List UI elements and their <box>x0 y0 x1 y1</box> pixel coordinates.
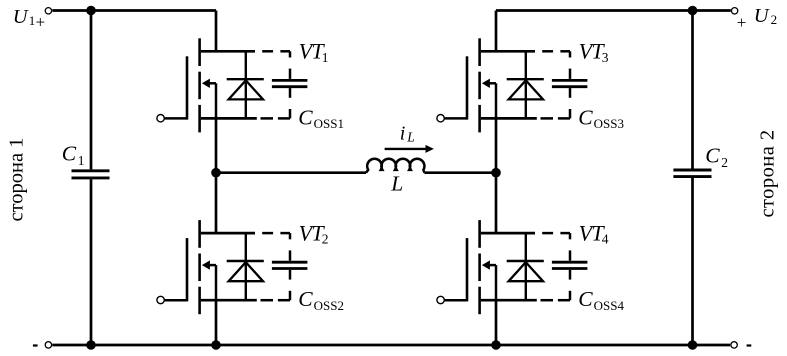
wire dashed outline box of VT3 top edge <box>542 50 553 53</box>
wire VT1 drain lead <box>215 11 218 52</box>
wire VT1 body-source link <box>215 83 218 118</box>
wire VT1 gate lead <box>165 117 187 120</box>
wire VT3 drain lead <box>495 11 498 52</box>
node midpoint right junction <box>491 168 501 178</box>
wire VT4 gate lead <box>445 299 467 302</box>
transistor VT1 gate plate <box>186 56 189 119</box>
wire VT4 drain lead <box>495 173 498 233</box>
label minus sign left <box>33 344 38 346</box>
wire VT2 body-source link <box>215 265 218 300</box>
svg-text:1: 1 <box>29 13 36 28</box>
wire dashed outline box of VT1 top edge <box>262 50 273 53</box>
wire VT3 gate lead <box>445 117 467 120</box>
node top rail / C2 junction <box>688 6 698 16</box>
wire VT1 drain bar <box>201 50 255 53</box>
transistor VT2 gate terminal circle <box>157 296 164 303</box>
wire VT4 drain bar <box>481 232 535 235</box>
node bottom rail / C1 junction <box>86 340 96 350</box>
wire VT1 source lead <box>215 118 218 172</box>
diode body diode of VT2 <box>245 233 247 300</box>
inductor L <box>366 159 424 173</box>
wire VT2 drain bar <box>201 232 255 235</box>
capacitor C1 branch wire lower <box>90 179 93 345</box>
node bottom rail / VT2 source junction <box>211 340 221 350</box>
wire dashed outline box of VT3 right edge <box>569 51 572 57</box>
diode body diode of VT4 <box>525 233 527 300</box>
svg-text:C: C <box>62 142 77 166</box>
svg-text:i: i <box>400 122 406 144</box>
label minus sign right <box>747 344 752 346</box>
wire dashed outline box of VT2 right edge <box>289 233 292 239</box>
diode body diode of VT1 <box>245 51 247 118</box>
wire dashed outline box of VT4 top edge <box>542 232 553 235</box>
wire midpoint left wire to inductor <box>216 171 366 174</box>
capacitor COSS2 plates <box>272 261 308 264</box>
svg-text:OSS1: OSS1 <box>314 116 344 131</box>
svg-text:4: 4 <box>602 232 609 247</box>
wire top-right rail from VT3 drain corner to U2+ terminal <box>496 9 731 12</box>
svg-text:U: U <box>754 5 770 27</box>
transistor VT2 substrate arrow <box>209 264 217 267</box>
wire VT2 source lead <box>215 300 218 345</box>
capacitor COSS3 plates <box>552 79 588 82</box>
transistor VT3 substrate arrow <box>489 82 497 85</box>
wire VT3 source bar <box>481 117 537 120</box>
transistor VT4 gate terminal circle <box>437 296 444 303</box>
wire VT2 gate lead <box>165 299 187 302</box>
transistor VT1 gate terminal circle <box>157 115 164 122</box>
svg-text:C: C <box>298 287 313 311</box>
capacitor C2 branch wire upper <box>691 11 694 169</box>
wire VT4 source lead <box>495 300 498 345</box>
svg-text:сторона 2: сторона 2 <box>757 129 779 217</box>
svg-text:L: L <box>390 172 403 196</box>
capacitor COSS1 plates <box>272 79 308 82</box>
transistor VT4 channel dashes <box>478 220 481 248</box>
svg-text:C: C <box>298 105 313 129</box>
svg-text:U: U <box>13 6 29 28</box>
svg-text:сторона 1: сторона 1 <box>6 138 28 222</box>
terminal U2 positive circle <box>731 8 737 14</box>
terminal negative circle left <box>45 342 51 348</box>
svg-text:2: 2 <box>721 155 728 170</box>
wire bottom rail <box>52 344 730 347</box>
capacitor C2 plates <box>673 169 711 172</box>
wire VT1 source bar <box>201 117 257 120</box>
node midpoint left junction <box>211 168 221 178</box>
svg-text:2: 2 <box>771 12 778 27</box>
svg-text:C: C <box>705 144 720 168</box>
svg-text:1: 1 <box>78 153 85 168</box>
node bottom rail / VT4 source junction <box>491 340 501 350</box>
svg-text:OSS4: OSS4 <box>594 298 625 313</box>
transistor VT2 gate plate <box>186 238 189 301</box>
transistor VT2 channel dashes <box>198 220 201 248</box>
terminal U1 positive circle <box>45 8 51 14</box>
wire dashed outline box of VT4 right edge <box>569 233 572 239</box>
wire dashed outline box of VT3 bottom edge <box>541 117 554 120</box>
node bottom rail / C2 junction <box>688 340 698 350</box>
transistor VT1 channel dashes <box>198 38 201 66</box>
wire dashed outline box of VT1 bottom edge <box>261 117 274 120</box>
wire VT3 drain bar <box>481 50 535 53</box>
svg-text:C: C <box>578 105 593 129</box>
wire inductor to midpoint right <box>424 171 496 174</box>
wire top-left rail from U1+ terminal to VT1 drain corner <box>52 9 216 12</box>
svg-text:OSS2: OSS2 <box>314 298 344 313</box>
wire VT4 source bar <box>481 299 537 302</box>
transistor VT4 substrate arrow <box>489 264 497 267</box>
wire VT3 body-source link <box>495 83 498 118</box>
transistor VT3 channel dashes <box>478 38 481 66</box>
wire dashed outline box of VT4 bottom edge <box>541 299 554 302</box>
svg-text:1: 1 <box>322 50 329 65</box>
svg-text:3: 3 <box>602 50 609 65</box>
wire dashed outline box of VT2 top edge <box>262 232 273 235</box>
svg-text:+: + <box>36 13 46 32</box>
wire VT4 body-source link <box>495 265 498 300</box>
transistor VT4 gate plate <box>466 238 469 301</box>
transistor VT3 gate plate <box>466 56 469 119</box>
capacitor COSS4 plates <box>552 261 588 264</box>
wire VT3 source lead <box>495 118 498 172</box>
svg-text:2: 2 <box>322 232 329 247</box>
node top rail / C1 junction <box>86 6 96 16</box>
wire dashed outline box of VT1 right edge <box>289 51 292 57</box>
wire VT2 source bar <box>201 299 257 302</box>
wire VT2 drain lead <box>215 173 218 233</box>
capacitor C1 plates <box>72 169 110 172</box>
svg-text:+: + <box>737 13 747 32</box>
wire iL current arrow <box>385 148 427 150</box>
transistor VT3 gate terminal circle <box>437 115 444 122</box>
transistor VT1 substrate arrow <box>209 82 217 85</box>
capacitor C2 branch wire lower <box>691 178 694 345</box>
svg-text:L: L <box>406 129 415 144</box>
wire dashed outline box of VT2 bottom edge <box>261 299 274 302</box>
svg-text:OSS3: OSS3 <box>594 116 624 131</box>
capacitor C1 branch wire upper <box>90 11 93 170</box>
svg-text:C: C <box>578 287 593 311</box>
terminal negative circle right <box>731 342 737 348</box>
diode body diode of VT3 <box>525 51 527 118</box>
